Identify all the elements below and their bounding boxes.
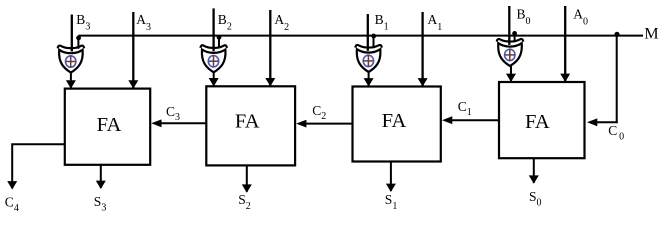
wire M stub to XOR gate 4 (514, 36, 516, 43)
full adder FA bit1 box (353, 87, 441, 162)
wire B1 input line (367, 14, 369, 51)
full adder FA bit0 box (499, 82, 585, 158)
wire carry C2 from FA1 to FA2 with left arrow (306, 123, 353, 125)
wire M stub to XOR gate 3 (373, 36, 375, 49)
wire M horizontal line (78, 35, 643, 37)
svg-text:FA: FA (525, 111, 550, 133)
wire XOR3 output arrow into FA bit1 (368, 72, 370, 86)
wire XOR2 output arrow into FA bit2 (213, 72, 215, 85)
full adder FA bit2 box (206, 86, 295, 165)
wire A3 input line with arrow into FA3 box (132, 12, 134, 88)
wire sum S3 output arrow (100, 165, 102, 188)
xor gate G1 (for B1) (355, 45, 381, 72)
wire carry C1 from FA0 to FA1 with left arrow (452, 119, 499, 121)
wire B0 input line (508, 6, 510, 45)
svg-text:M: M (644, 26, 658, 43)
full adder FA bit3 box (65, 89, 150, 165)
wire XOR1 output arrow into FA bit3 (70, 73, 72, 88)
wire carry C3 from FA2 to FA3 with left arrow (161, 122, 206, 124)
wire M stub to XOR gate 1 (77, 36, 79, 49)
wire sum S2 output arrow (246, 165, 248, 191)
wire A0 input line with arrow into FA0-bit box (564, 6, 566, 81)
wire carry-out C4 from FA3 left edge (12, 144, 65, 188)
xor gate G2 (for B2) (201, 45, 227, 72)
xor gate G3 (for B3) (58, 46, 84, 73)
wire XOR4 output arrow into FA bit0 (510, 66, 512, 81)
wire sum S1 output arrow (390, 162, 392, 192)
node junction dot at XOR4 stub (512, 31, 517, 36)
node junction dot at XOR2 stub (217, 35, 222, 40)
wire sum S0 output arrow (533, 158, 535, 183)
svg-text:FA: FA (382, 110, 407, 132)
wire M stub to XOR gate 2 (218, 36, 220, 49)
wire carry-in C0 from M line down and into FA0 (616, 36, 618, 123)
wire B2 input line (212, 8, 214, 51)
wire A2 input line with arrow into FA2 box (269, 10, 271, 85)
xor gate G0 (for B0) (497, 39, 523, 66)
svg-text:FA: FA (235, 111, 260, 133)
wire B3 input line (71, 15, 73, 52)
wire A1 input line with arrow into FA1-bit box (421, 12, 423, 86)
node junction dot at XOR1 stub (76, 36, 81, 41)
node junction dot at M to C0 (614, 32, 619, 37)
svg-text:FA: FA (97, 114, 122, 136)
node junction dot at XOR3 stub (371, 34, 376, 39)
